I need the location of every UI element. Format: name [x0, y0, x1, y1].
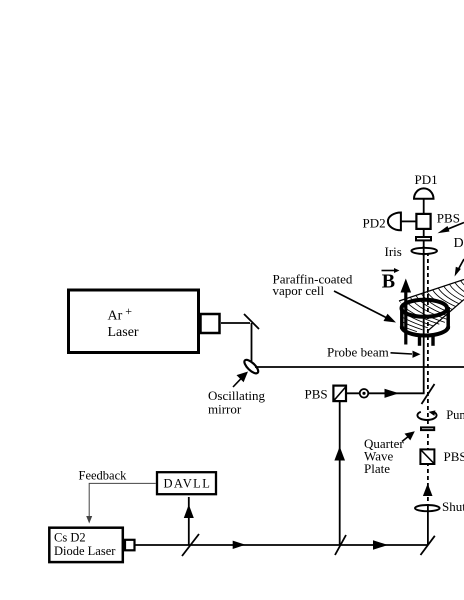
cell leg left: [418, 337, 421, 346]
circular polarization symbol: [417, 410, 436, 420]
svg-text:B: B: [382, 271, 395, 293]
svg-text:PBS: PBS: [444, 449, 464, 464]
svg-text:PBS: PBS: [305, 386, 328, 401]
arrow up on pump: [423, 484, 433, 497]
photodiode PD2: [388, 213, 401, 231]
photodiode PD1: [414, 188, 434, 198]
scanned light sheet hatch arcs: [365, 273, 464, 335]
sheet top edge: [399, 280, 464, 302]
arrow up on probe path: [334, 447, 345, 461]
wire: Cs beam: [136, 544, 428, 546]
vapor cell right wall: [446, 307, 450, 329]
probe beam pointer arrow: [391, 351, 421, 358]
Cs D2 diode laser box: [49, 528, 123, 562]
wire: probe beam up: [339, 402, 341, 546]
oscillating mirror pointer arrow: [233, 372, 248, 388]
wire: probe beam horizontal: [347, 392, 425, 394]
sheet bottom edge: [427, 300, 464, 332]
arrow on Cs beam: [233, 541, 246, 549]
svg-text:Plate: Plate: [364, 461, 390, 476]
svg-text:Feedback: Feedback: [79, 469, 128, 483]
top-right pointer arrow 2: [455, 259, 464, 277]
wire: beam down to oscillating mirror: [251, 323, 253, 361]
beam splitter BS2: [335, 535, 346, 555]
Cs laser output coupler: [125, 540, 135, 551]
svg-text:PD2: PD2: [363, 215, 386, 230]
svg-text:Diode Laser: Diode Laser: [54, 544, 116, 558]
wire: scanned Ar beam to right edge: [255, 366, 464, 368]
wire: up to DAVLL: [188, 497, 190, 545]
svg-text:Shutter: Shutter: [442, 499, 464, 514]
vapor cell rim: [402, 300, 448, 317]
interference filter: [416, 237, 431, 240]
svg-text:Iris: Iris: [385, 244, 402, 259]
vapor cell left wall: [400, 307, 404, 329]
svg-text:Pump beam: Pump beam: [446, 408, 464, 422]
svg-text:vapor cell: vapor cell: [273, 283, 325, 298]
cell leg right: [431, 337, 434, 346]
wire: Ar beam to mirror: [221, 322, 250, 324]
Ar+ laser box: [69, 290, 199, 353]
beam combiner slash: [422, 384, 435, 404]
svg-text:PBS: PBS: [437, 211, 460, 226]
polarization circle-dot: [360, 389, 369, 398]
label: Oscillating mirror: [208, 388, 266, 417]
label B vector: [382, 268, 400, 293]
svg-text:Probe beam: Probe beam: [327, 345, 389, 360]
top-right pointer arrow 1: [438, 223, 464, 234]
arrow on Cs beam segment 2: [373, 540, 388, 549]
Ar laser output coupler: [201, 314, 220, 333]
wire: pump beam solid lower: [427, 508, 429, 545]
svg-text:Laser: Laser: [108, 325, 139, 340]
DAVLL box: [157, 472, 216, 494]
feedback arrowhead: [86, 516, 92, 524]
B field arrow: [401, 279, 412, 345]
PBS top cube: [416, 214, 430, 229]
wire PD2 to PBS: [401, 220, 416, 222]
pump beam dashed: [427, 252, 429, 506]
svg-text:DAVLL: DAVLL: [164, 477, 212, 491]
arrow into DAVLL: [184, 505, 194, 519]
feedback wire: [89, 483, 156, 519]
svg-text:PD1: PD1: [415, 172, 438, 187]
PBS mid cube: [333, 386, 346, 402]
mirror M1: [244, 314, 259, 329]
oscillating mirror: [242, 358, 260, 376]
label Paraffin-coated vapor cell: [273, 272, 353, 298]
PBS bottom-right cube: [420, 449, 434, 464]
iris: [411, 248, 437, 254]
arrow on probe horizontal: [385, 389, 400, 398]
mirror M3 bottom right: [421, 536, 435, 555]
label Quarter Wave Plate: [364, 436, 404, 476]
svg-text:Cs D2: Cs D2: [54, 531, 86, 545]
wire: probe beam vertical up to PD1: [423, 199, 425, 394]
shutter lens: [415, 505, 440, 511]
QWP pointer arrow: [402, 431, 415, 441]
svg-text:Dichroic: Dichroic: [454, 236, 464, 251]
beam splitter to DAVLL: [182, 534, 199, 556]
quarter wave plate: [421, 427, 434, 430]
svg-text:mirror: mirror: [208, 402, 242, 417]
vapor cell bottom: [402, 327, 448, 336]
paraffin label pointer arrow: [334, 291, 396, 323]
